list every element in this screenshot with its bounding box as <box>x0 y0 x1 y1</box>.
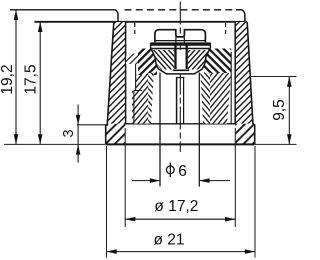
dimension 17,5 line <box>39 22 41 145</box>
nut section hatch right <box>188 50 209 70</box>
svg-text:19,2: 19,2 <box>0 64 16 94</box>
sleeve step edge left <box>134 64 142 124</box>
wing stripes left <box>138 49 157 76</box>
node shoulder line 17,5 <box>35 21 248 23</box>
node hole wall right phi6 <box>198 73 200 187</box>
screw head base edge <box>155 40 206 42</box>
collet serration right inner <box>200 73 210 124</box>
dimension phi6 arrows <box>132 180 230 182</box>
nut section hatch left <box>152 50 174 70</box>
skirt block left <box>106 124 126 144</box>
wire extension 9,5 top <box>250 76 297 78</box>
wall hatch right <box>235 22 252 124</box>
dimension phi17,2 line <box>125 218 235 220</box>
wing stripes right <box>204 49 231 74</box>
wire step extension 3 <box>77 124 107 126</box>
collet serration left outer upper <box>136 75 149 91</box>
node knob bottom edge <box>106 143 255 145</box>
wire center line <box>179 2 181 153</box>
svg-text:9,5: 9,5 <box>271 99 288 121</box>
node knob top-right corner <box>236 10 245 22</box>
node top extension line 19,2 <box>10 9 115 11</box>
wire bottom extension left <box>4 143 105 145</box>
dimension 9,5 line <box>288 77 290 145</box>
node cavity floor <box>126 123 236 125</box>
dimension phi21 extension lines <box>107 146 256 258</box>
svg-text:6: 6 <box>178 163 187 180</box>
node knob outer side left <box>106 22 114 144</box>
svg-text:ø 17,2: ø 17,2 <box>154 198 198 215</box>
wire bottom extension right <box>255 143 297 145</box>
collet serration right outer <box>210 73 231 124</box>
dimension phi17,2 extension lines <box>125 128 235 227</box>
node knob top edge hidden (dashed) <box>125 9 237 11</box>
collet serration left outer lower <box>132 91 148 124</box>
sleeve hatch left <box>126 51 142 64</box>
node knob outer side right <box>247 22 255 144</box>
screw head U1 <box>155 30 206 43</box>
svg-text:17,5: 17,5 <box>22 64 39 94</box>
node hidden edge right (dashed) <box>225 23 227 36</box>
node knob top-left corner <box>115 10 119 22</box>
screw slot neck <box>176 37 184 44</box>
skirt block right <box>235 124 255 144</box>
svg-text:3: 3 <box>61 129 77 137</box>
node hidden edge left (dashed) <box>134 23 136 36</box>
node hole wall left phi6 <box>159 73 161 187</box>
collet boss body <box>152 50 210 74</box>
label phi 6 <box>166 166 174 174</box>
collet boss outline <box>152 50 210 74</box>
screw slot bottom <box>173 69 189 71</box>
svg-text:ø 21: ø 21 <box>153 231 184 248</box>
dimension 3 line <box>77 105 79 163</box>
wall hatch left <box>107 22 125 124</box>
screw slot walls <box>174 44 176 69</box>
collet serration left inner <box>148 73 154 124</box>
washer under screw head <box>151 42 211 45</box>
node cavity wall left <box>125 22 127 124</box>
dimension 19,2 line <box>15 10 17 145</box>
sleeve edge right <box>230 52 232 124</box>
screw shank tip <box>176 77 185 79</box>
dimension phi21 line <box>107 251 256 253</box>
node cavity wall right <box>234 22 236 124</box>
